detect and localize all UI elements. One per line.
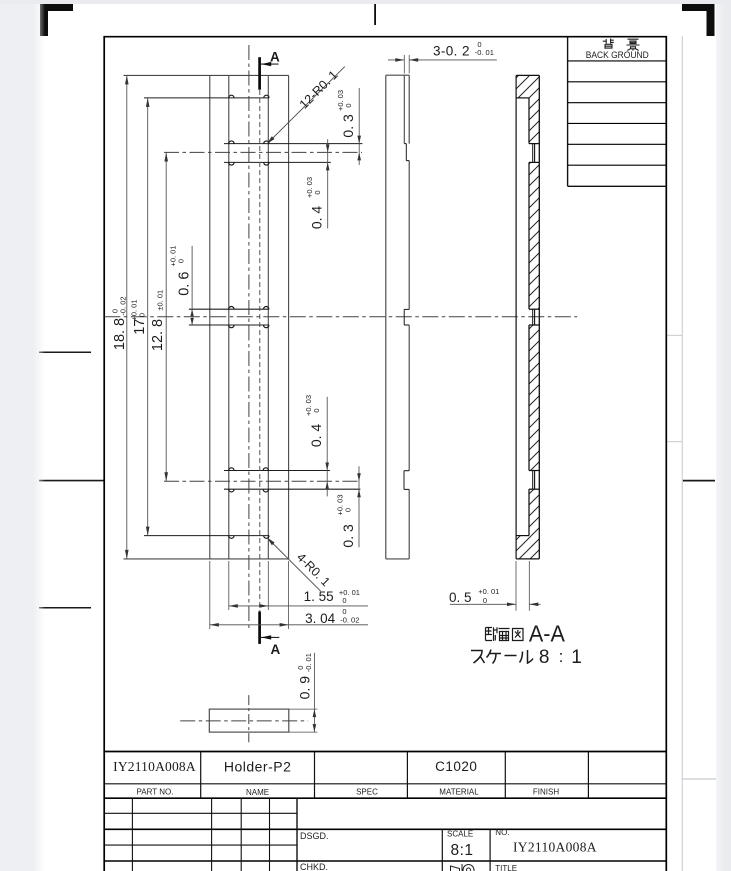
main horizontal centerline bbox=[104, 316, 577, 318]
dimension 0.3 upper bbox=[358, 88, 360, 165]
svg-text:PART NO.: PART NO. bbox=[137, 788, 174, 797]
bottom-left black chip bbox=[0, 862, 8, 871]
svg-text:CHKD.: CHKD. bbox=[300, 862, 328, 871]
front view bottom edge + 18.8 extension bbox=[124, 558, 289, 560]
side view middle groove step bbox=[404, 308, 409, 310]
dimension 12.8 bbox=[165, 153, 167, 482]
sheet top center mark bbox=[374, 4, 376, 25]
title block scale/no dividers bbox=[441, 829, 443, 871]
sheet right center mark bbox=[683, 480, 716, 482]
dimension 0.4 lower bbox=[326, 397, 328, 497]
dimension 0.3 lower bbox=[358, 466, 360, 547]
section neck webs bbox=[532, 144, 534, 163]
lower groove centerline (12.8 extension) bbox=[164, 480, 360, 482]
dimension 18.8 bbox=[126, 75, 128, 559]
svg-text:DSGD.: DSGD. bbox=[300, 831, 329, 841]
svg-text:Holder-P2: Holder-P2 bbox=[224, 758, 292, 774]
svg-text:A-A: A-A bbox=[529, 621, 566, 647]
svg-text:NO.: NO. bbox=[495, 828, 509, 837]
sheet corner mark top-right bbox=[682, 3, 715, 36]
svg-text:BACK GROUND: BACK GROUND bbox=[586, 50, 649, 61]
side view outline bbox=[385, 75, 387, 559]
svg-text:0: 0 bbox=[313, 190, 322, 194]
front view slot edges bbox=[228, 75, 230, 559]
svg-text:1. 55: 1. 55 bbox=[304, 589, 334, 604]
svg-text:A: A bbox=[271, 642, 281, 657]
section A-A hatched regions bbox=[516, 75, 539, 98]
svg-text:A: A bbox=[270, 50, 280, 65]
svg-text:0: 0 bbox=[483, 596, 487, 605]
bottom view vertical centerline bbox=[248, 695, 250, 742]
front view upper groove pair bbox=[224, 143, 362, 145]
svg-text:FINISH: FINISH bbox=[533, 788, 559, 797]
drawing frame border bbox=[104, 37, 666, 871]
svg-text:-0. 02: -0. 02 bbox=[340, 616, 359, 625]
back ground table bbox=[567, 37, 569, 187]
svg-text:3-0. 2: 3-0. 2 bbox=[433, 43, 470, 58]
svg-text:±0. 01: ±0. 01 bbox=[156, 290, 165, 311]
dimension 0.6 bbox=[191, 246, 193, 325]
upper groove centerline (12.8 extension) bbox=[164, 151, 362, 153]
front view bottom foot line + 17 extension bbox=[144, 535, 269, 537]
svg-text:+0. 01: +0. 01 bbox=[478, 587, 499, 596]
svg-text:0. 6: 0. 6 bbox=[177, 272, 193, 296]
third angle projection symbol bbox=[451, 864, 475, 871]
svg-text:12-R0. 1: 12-R0. 1 bbox=[297, 68, 341, 112]
svg-text:IY2110A008A: IY2110A008A bbox=[113, 759, 196, 774]
svg-text:12. 8: 12. 8 bbox=[150, 319, 166, 351]
leader 4-R0.1 bbox=[267, 538, 321, 592]
bottom view horizontal centerline bbox=[180, 720, 308, 722]
svg-text:MATERIAL: MATERIAL bbox=[439, 788, 479, 797]
dimension 0.4 upper bbox=[327, 139, 329, 228]
front view top edge + 18.8 extension bbox=[124, 74, 289, 76]
side view lower groove step bbox=[404, 470, 409, 472]
section A-A outline bbox=[515, 75, 517, 559]
svg-text:SCALE: SCALE bbox=[447, 830, 473, 839]
svg-text:0: 0 bbox=[343, 508, 352, 512]
svg-text:IY2110A008A: IY2110A008A bbox=[513, 840, 597, 855]
svg-text:0. 9: 0. 9 bbox=[297, 676, 313, 700]
svg-text:0: 0 bbox=[177, 259, 186, 263]
sheet left fold marks bbox=[39, 351, 91, 353]
front view vertical centerline bbox=[248, 45, 250, 628]
front view top foot line + 17 extension bbox=[144, 97, 269, 99]
svg-text:-0. 01: -0. 01 bbox=[304, 653, 313, 672]
svg-text:8: 8 bbox=[539, 647, 550, 668]
section arrow A bottom bbox=[258, 612, 261, 644]
svg-text:SPEC: SPEC bbox=[356, 788, 378, 797]
revision table columns bbox=[131, 798, 133, 871]
section cut path (dashed) bbox=[259, 90, 261, 612]
section arrow A top bbox=[258, 57, 261, 89]
svg-text:0: 0 bbox=[138, 313, 147, 317]
svg-text:NAME: NAME bbox=[246, 788, 269, 797]
dimension 1.55 bbox=[228, 561, 230, 610]
svg-text:0: 0 bbox=[342, 596, 346, 605]
dimension 0.9 bbox=[289, 708, 318, 710]
svg-text:0: 0 bbox=[344, 103, 353, 107]
svg-text:0: 0 bbox=[312, 408, 321, 412]
side view top groove step bbox=[404, 143, 406, 145]
front view middle groove bbox=[189, 308, 269, 310]
svg-text:0. 4: 0. 4 bbox=[309, 206, 325, 230]
faint page edge right bbox=[681, 36, 683, 871]
svg-text:0. 4: 0. 4 bbox=[308, 424, 324, 448]
sheet corner mark top-left bbox=[40, 3, 73, 36]
svg-text:TITLE: TITLE bbox=[495, 864, 517, 871]
svg-text:18. 8: 18. 8 bbox=[112, 318, 128, 350]
title block bbox=[104, 751, 666, 753]
svg-text:8:1: 8:1 bbox=[450, 842, 473, 859]
side view 0.2 slot wall bbox=[403, 75, 405, 143]
front view lower groove pair bbox=[224, 470, 330, 472]
title block row1 dividers bbox=[200, 752, 202, 799]
dimension 3-0.2 bbox=[403, 55, 405, 74]
svg-text:0. 3: 0. 3 bbox=[340, 524, 356, 548]
svg-text:-0. 01: -0. 01 bbox=[475, 48, 494, 57]
svg-text:0. 3: 0. 3 bbox=[340, 114, 356, 138]
dimension 3.04 bbox=[209, 561, 211, 629]
svg-text:0. 5: 0. 5 bbox=[449, 590, 472, 605]
svg-text:-0. 02: -0. 02 bbox=[119, 296, 128, 315]
bottom view rectangle bbox=[209, 709, 288, 732]
front view outer edges bbox=[209, 75, 211, 559]
side view right edge segments bbox=[408, 75, 410, 143]
svg-text:1: 1 bbox=[571, 647, 582, 668]
dimension 0.5 bbox=[515, 561, 517, 611]
back ground table kanji 背景 bbox=[603, 39, 640, 51]
svg-text:3. 04: 3. 04 bbox=[305, 611, 336, 626]
section column edges bbox=[528, 98, 530, 144]
section title スケール 8 : 1 bbox=[471, 650, 533, 664]
svg-text:C1020: C1020 bbox=[435, 759, 477, 774]
svg-text::: : bbox=[559, 647, 564, 666]
leader 12-R0.1 bbox=[267, 67, 345, 144]
dimension 17 bbox=[147, 98, 149, 536]
section title 断面図 A-A bbox=[486, 627, 524, 641]
